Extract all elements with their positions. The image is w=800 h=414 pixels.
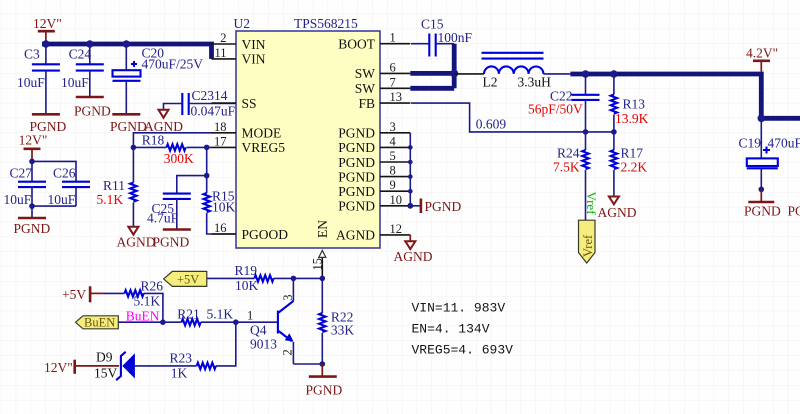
svg-text:1: 1 — [247, 308, 253, 322]
svg-text:10K: 10K — [212, 200, 236, 215]
svg-text:12V": 12V" — [44, 360, 73, 375]
svg-text:PGND: PGND — [338, 126, 375, 141]
svg-text:PGND: PGND — [338, 140, 375, 155]
resistor R26 5.1K — [125, 279, 164, 323]
node junction R18 left — [131, 145, 137, 151]
resistor R23 1K — [170, 322, 236, 380]
svg-text:10: 10 — [390, 193, 403, 207]
capacitor C2314 0.047uF (soft start) — [182, 88, 235, 119]
svg-text:2: 2 — [281, 349, 295, 355]
svg-text:10uF: 10uF — [4, 192, 32, 207]
svg-text:R26: R26 — [141, 279, 164, 294]
wire: VREG5 rail left — [132, 147, 134, 182]
node junction C22 tap — [582, 70, 590, 78]
resistor R11 5.1K — [97, 178, 137, 227]
svg-text:Vref: Vref — [581, 234, 595, 257]
svg-text:5.1K: 5.1K — [134, 294, 161, 309]
svg-text:13: 13 — [390, 90, 403, 104]
svg-text:470uF/25V: 470uF/25V — [142, 57, 204, 72]
ground PGND (C20) — [110, 114, 147, 134]
svg-text:0.047uF: 0.047uF — [191, 104, 236, 119]
svg-text:R11: R11 — [103, 178, 125, 193]
wire: SW to L2 — [454, 73, 484, 75]
svg-text:FB: FB — [358, 96, 375, 111]
svg-text:AGND: AGND — [117, 235, 156, 250]
svg-text:17: 17 — [214, 134, 227, 148]
svg-text:7: 7 — [390, 75, 396, 89]
svg-text:R18: R18 — [142, 132, 165, 147]
svg-text:PGND: PGND — [338, 155, 375, 170]
svg-text:2.2K: 2.2K — [621, 160, 648, 175]
power 4.2V" — [746, 46, 778, 72]
inductor L2 3.3uH — [482, 53, 552, 90]
svg-text:R13: R13 — [623, 97, 646, 112]
node junction C22 bottom on FB — [583, 129, 589, 135]
svg-text:PGND: PGND — [425, 199, 462, 214]
capacitor C26 10uF — [48, 166, 91, 208]
svg-text:C26: C26 — [53, 166, 76, 181]
resistor R19 10K — [235, 263, 323, 293]
svg-text:4.2V": 4.2V" — [746, 46, 778, 61]
wire: D9 to R23 — [135, 365, 197, 367]
svg-text:9: 9 — [390, 178, 396, 192]
pin stub FB right row 103.1 — [380, 102, 410, 104]
svg-text:33K: 33K — [331, 323, 355, 338]
ground AGND (pin12) — [394, 241, 433, 264]
pin stub SW right row 88.3 — [380, 87, 410, 89]
capacitor C27 10uF — [4, 166, 47, 208]
wire: SW pin7 thick — [410, 86, 454, 91]
wire: MODE net — [133, 133, 211, 148]
node junction SW — [450, 69, 458, 77]
svg-text:1: 1 — [390, 31, 396, 45]
svg-text:18: 18 — [214, 120, 227, 134]
svg-text:PGND: PGND — [306, 383, 343, 398]
wire: VREG5 rail right — [206, 147, 208, 193]
svg-text:12V": 12V" — [19, 133, 48, 148]
resistor R22 33K — [319, 278, 354, 364]
svg-text:3: 3 — [281, 294, 295, 300]
svg-text:10uF: 10uF — [48, 192, 76, 207]
wire: output bus to right edge (thick) — [761, 116, 800, 121]
netflag +5V (yellow) — [164, 271, 207, 286]
svg-text:EN=4. 134V: EN=4. 134V — [412, 322, 490, 337]
svg-text:9013: 9013 — [250, 337, 277, 352]
svg-text:SS: SS — [242, 96, 257, 111]
pin stub PGND right row 147.4 — [380, 146, 410, 148]
capacitor C24 10uF — [61, 44, 104, 97]
svg-text:VREG5=4. 693V: VREG5=4. 693V — [412, 343, 514, 358]
ground AGND (C2314) — [144, 110, 183, 134]
svg-text:C19: C19 — [739, 136, 762, 151]
svg-text:R19: R19 — [235, 263, 258, 278]
svg-text:1K: 1K — [171, 365, 188, 380]
svg-text:100nF: 100nF — [438, 30, 473, 45]
power 12V" (mid-left) — [19, 133, 48, 162]
svg-text:470uF/: 470uF/ — [768, 136, 800, 151]
svg-text:SW: SW — [355, 66, 376, 81]
svg-text:BOOT: BOOT — [338, 37, 376, 52]
svg-text:R17: R17 — [621, 146, 644, 161]
svg-text:VIN: VIN — [242, 37, 266, 52]
wire: C25 branch — [177, 176, 207, 194]
capacitor C19 470uF polarized — [739, 118, 800, 202]
wire: PGND pins tie — [409, 133, 411, 206]
svg-text:300K: 300K — [164, 151, 194, 166]
svg-text:PGND: PGND — [153, 235, 190, 250]
node junction C25 tee — [204, 173, 210, 179]
resistor R13 13.9K — [611, 74, 649, 132]
svg-text:PGND: PGND — [338, 199, 375, 214]
node junction R23 riser — [233, 319, 239, 325]
wire: 12V input bus (thick) — [42, 44, 212, 59]
wire: FB net — [411, 103, 614, 132]
power 12V" (bottom) — [44, 360, 119, 375]
svg-text:PGND: PGND — [74, 104, 111, 119]
capacitor C20 470uF/25V polarized — [113, 44, 204, 114]
svg-text:3.3uH: 3.3uH — [518, 75, 552, 90]
wire: BOOT to SW thick vertical — [452, 44, 457, 89]
ground PGND (IC power pins) — [421, 199, 462, 215]
svg-text:C3: C3 — [24, 46, 40, 61]
pin stub SS left row 103.1 — [212, 102, 237, 104]
svg-text:TPS568215: TPS568215 — [294, 16, 358, 31]
svg-text:11: 11 — [214, 46, 226, 60]
EN pin input arrow — [319, 250, 326, 257]
wire: BuEN net — [118, 321, 181, 323]
svg-text:PGND: PGND — [338, 184, 375, 199]
resistor R15 10K — [204, 189, 237, 235]
capacitor C22 56pF/50V — [528, 74, 600, 132]
svg-text:7.5K: 7.5K — [553, 160, 580, 175]
svg-text:R24: R24 — [557, 146, 580, 161]
ground PGND (C27/C26) — [14, 218, 51, 236]
ground PGND (C25) — [153, 230, 191, 250]
svg-text:VIN: VIN — [242, 52, 266, 67]
capacitor C15 100nF (bootstrap) — [411, 17, 473, 57]
op-amp/regulator IC U2 TPS568215 body — [236, 31, 380, 248]
svg-text:EN: EN — [315, 220, 330, 238]
node junctions on PGND tie — [408, 145, 413, 150]
svg-text:AGND: AGND — [336, 228, 375, 243]
svg-text:D9: D9 — [96, 349, 113, 364]
svg-text:L2: L2 — [483, 75, 498, 90]
svg-text:4: 4 — [390, 134, 397, 148]
ground AGND (R17) — [598, 197, 637, 221]
ground PGND (C24) — [74, 97, 111, 119]
wire: L2 to output node — [543, 73, 570, 75]
svg-text:15V: 15V — [94, 365, 118, 380]
svg-text:PGND: PGND — [744, 204, 781, 219]
svg-text:PGND: PGND — [788, 204, 800, 219]
svg-text:5: 5 — [390, 149, 396, 163]
svg-text:10uF: 10uF — [17, 75, 45, 90]
svg-text:BuEN: BuEN — [84, 316, 115, 330]
svg-text:U2: U2 — [234, 16, 251, 31]
pin stub PGND right row 176.6 — [380, 176, 410, 178]
wire: pin10 to PGND symbol — [410, 205, 421, 207]
ground PGND (C3) — [30, 114, 67, 134]
pin stub MODE left row 132.8 — [212, 132, 237, 134]
wire: 4.2V output bus (thick) — [570, 74, 761, 118]
pin stub VREG5 left row 147.4 — [212, 146, 237, 148]
netflag BuEN (yellow) — [76, 316, 119, 330]
pin stub SW right row 73.4 — [380, 72, 410, 74]
power +5V (R26) — [62, 286, 104, 302]
ground PGND (C19) — [744, 202, 781, 219]
wire: AGND pin12 elbow — [409, 235, 411, 241]
pin stub PGOOD left row 234 — [212, 233, 237, 235]
svg-text:12V": 12V" — [33, 16, 62, 31]
svg-text:PGND: PGND — [14, 221, 51, 236]
resistor R17 2.2K — [611, 132, 648, 197]
svg-text:C2314: C2314 — [192, 88, 228, 103]
capacitor C3 10uF — [17, 44, 60, 114]
ground PGND (Q4) — [306, 364, 343, 398]
svg-text:+5V: +5V — [62, 287, 86, 302]
resistor R21 5.1K — [177, 306, 277, 325]
pin stub PGND right row 191.2 — [380, 190, 410, 192]
node junction C19 tap — [758, 115, 766, 123]
node junction C24 on bus — [86, 40, 93, 47]
pin stub VIN left row 44 — [212, 43, 237, 45]
svg-text:C24: C24 — [69, 46, 92, 61]
svg-text:AGND: AGND — [598, 205, 637, 220]
svg-text:6: 6 — [390, 60, 396, 74]
node junction R13 bottom on FB — [611, 129, 617, 135]
svg-text:PGOOD: PGOOD — [242, 227, 289, 242]
svg-text:SW: SW — [355, 81, 376, 96]
svg-text:10K: 10K — [235, 278, 259, 293]
wire: C27/C26 parallel loop — [32, 161, 76, 218]
svg-text:AGND: AGND — [394, 249, 433, 264]
svg-text:4.7uF: 4.7uF — [147, 211, 179, 226]
svg-text:VIN=11. 983V: VIN=11. 983V — [412, 301, 506, 316]
svg-text:Q4: Q4 — [250, 323, 267, 338]
node junction R18 right / VREG5 — [204, 145, 210, 151]
resistor R18 300K — [133, 132, 211, 166]
node junction R13 tap — [610, 70, 618, 78]
node junction C3 on bus — [42, 40, 49, 47]
node junction EN/R22 — [320, 276, 326, 282]
wire: +5V flag to R19 — [207, 277, 255, 279]
annotation text block — [412, 301, 514, 358]
svg-text:PGND: PGND — [338, 169, 375, 184]
svg-text:10uF: 10uF — [61, 75, 89, 90]
transistor Q4 9013 NPN — [250, 278, 295, 364]
resistor R24 7.5K — [553, 132, 589, 220]
wire: SW pin6 thick — [410, 71, 454, 76]
pin stub PGND right row 162.0 — [380, 161, 410, 163]
svg-text:3: 3 — [390, 120, 396, 134]
svg-text:56pF/50V: 56pF/50V — [528, 102, 583, 117]
diode D9 15V zener — [94, 349, 135, 380]
power 12V" (top input rail) — [33, 16, 62, 44]
wire: +5V to R26 — [104, 292, 125, 294]
wire: emitter to R22 bottom — [293, 363, 322, 365]
node junction emitter/PGND — [320, 361, 326, 367]
node junction Q4 collector — [291, 276, 297, 282]
node junction 12V loop bottom — [29, 203, 35, 209]
svg-text:13.9K: 13.9K — [615, 111, 649, 126]
svg-text:2: 2 — [220, 31, 226, 45]
svg-text:5.1K: 5.1K — [97, 192, 124, 207]
pin stub BOOT right row 43.7 — [380, 43, 410, 45]
svg-text:VREG5: VREG5 — [242, 140, 286, 155]
capacitor C25 4.7uF — [147, 194, 191, 230]
svg-text:0.609: 0.609 — [476, 117, 507, 132]
svg-text:BuEN: BuEN — [126, 309, 160, 324]
pin stub PGND right row 205.8 — [380, 205, 410, 207]
svg-text:8: 8 — [390, 164, 396, 178]
node junction C20 on bus — [123, 40, 130, 47]
svg-text:12: 12 — [390, 222, 403, 236]
pin stub EN pin 15 — [321, 252, 323, 278]
svg-text:5.1K: 5.1K — [207, 306, 234, 321]
svg-text:16: 16 — [214, 221, 227, 235]
wire: SS net — [164, 104, 183, 110]
svg-text:MODE: MODE — [242, 126, 282, 141]
svg-text:R23: R23 — [170, 350, 193, 365]
netflag Vref (yellow) — [579, 220, 596, 263]
node junction 12V loop top — [29, 159, 35, 165]
pin stub PGND right row 132.8 — [380, 132, 410, 134]
pin stub AGND right row 234.9 — [380, 234, 410, 236]
svg-text:C27: C27 — [10, 166, 33, 181]
svg-text:+5V: +5V — [177, 273, 199, 287]
node junction R26/BuEN — [160, 319, 166, 325]
ground AGND (R11) — [117, 227, 156, 250]
pin stub VIN left row 58.9 — [212, 58, 237, 60]
